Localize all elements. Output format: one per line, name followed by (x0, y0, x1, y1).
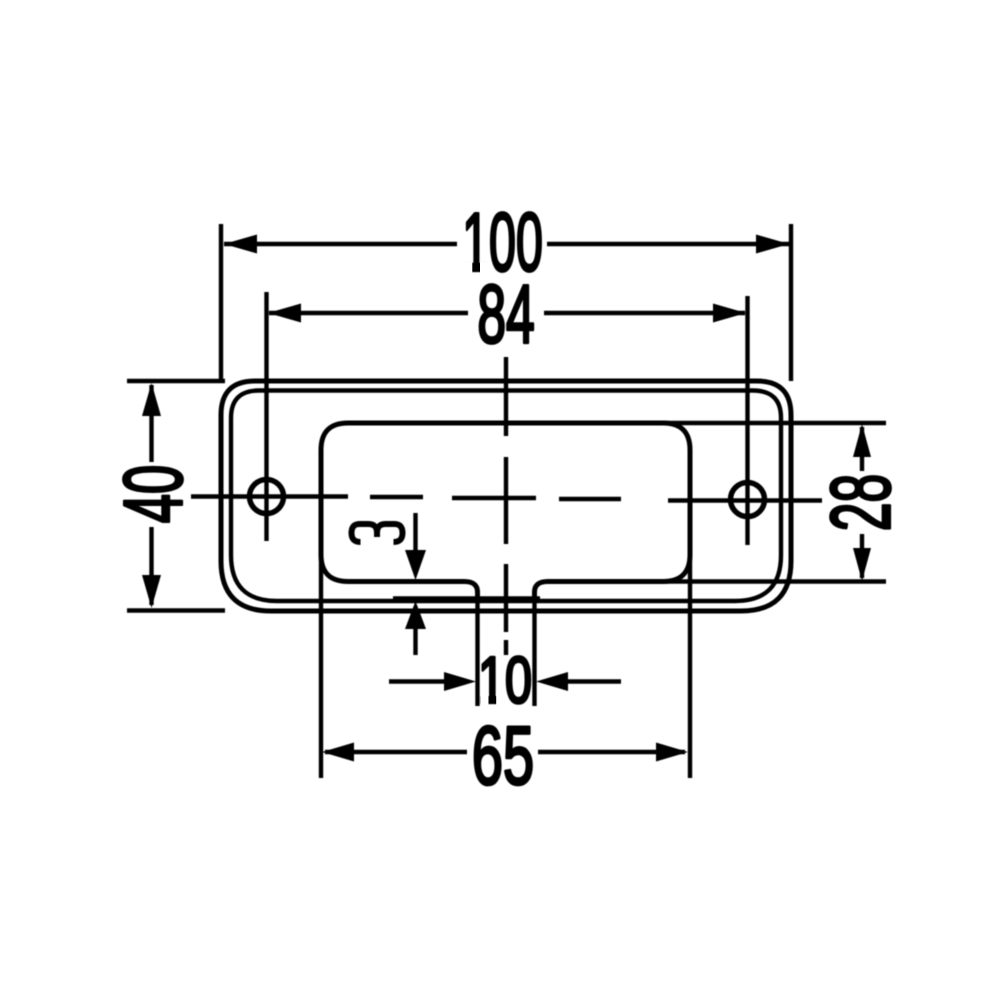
outer housing outline (221, 381, 791, 611)
svg-text:65: 65 (472, 709, 534, 802)
dim 3 lower arrow tail (413, 627, 417, 655)
dim 40 bottom extension line (127, 608, 225, 612)
dim 84 right arrowhead (713, 304, 746, 323)
dim 100 line right segment (547, 242, 789, 246)
dim 100 right arrowhead (756, 235, 789, 254)
dim 28 down arrowhead (853, 548, 871, 581)
horizontal center line middle segment (452, 496, 536, 500)
white patches removing the foot serif of digit 1 in "10" (481, 694, 489, 708)
dim 10 right extension line (532, 599, 536, 706)
svg-text:84: 84 (477, 268, 534, 361)
dim 40 down arrowhead (142, 575, 161, 608)
dim 3 lower arrowhead (up) (405, 601, 426, 629)
horizontal center line dash (559, 497, 621, 501)
dim 84 left arrowhead (268, 304, 301, 323)
dim 40 top extension line (127, 379, 225, 383)
dim 28 line lower segment (860, 534, 864, 578)
rim outline (231, 391, 781, 602)
dim 100 line left segment (224, 242, 457, 246)
svg-text:40: 40 (107, 465, 200, 523)
dim 10 left extension line (475, 599, 479, 706)
label 3 (rotated, drawn glyph) (352, 524, 403, 542)
dim 84 line left segment (269, 311, 468, 315)
dim 3 upper arrow line (413, 513, 417, 560)
dim 28 bottom extension line (663, 579, 886, 583)
left mounting hole (250, 480, 284, 514)
left hole vertical crosshair / 84 extension line (264, 292, 268, 541)
vertical center line top segment (504, 357, 508, 436)
vertical center line lower segment (504, 564, 508, 632)
dim 40 line upper segment (149, 385, 153, 462)
vertical center line bottom dash (504, 640, 508, 655)
notch step line (bold, rim level) (393, 596, 540, 602)
dim 10 left arrowhead (right-pointing) (444, 672, 476, 691)
dim 100 right extension line (789, 224, 793, 381)
dim 100 left arrowhead (224, 235, 257, 254)
vertical center line middle segment (504, 457, 508, 544)
dim 28 top extension line (663, 421, 886, 425)
dim 65 left extension line (319, 554, 323, 778)
dim 65 line left segment (325, 750, 467, 754)
dim 65 right arrowhead (656, 743, 688, 762)
dim 65 left arrowhead (322, 743, 354, 762)
dim 40 up arrowhead (142, 383, 161, 416)
dim 10 right arrow line (562, 679, 621, 683)
right hole vertical crosshair / 84 extension line (745, 296, 749, 545)
dim 40 line lower segment (149, 527, 153, 605)
svg-text:28: 28 (814, 474, 908, 531)
dim 10 right arrowhead (left-pointing) (536, 672, 568, 691)
dim 3 upper arrowhead (down) (405, 550, 426, 580)
dim 28 up arrowhead (853, 424, 871, 457)
horizontal center line through left hole (191, 494, 348, 498)
white patches removing the foot serif of digit 1 in "100" (462, 262, 472, 277)
horizontal center line dash (370, 495, 423, 499)
dim 84 line right segment (544, 311, 745, 315)
dim 10 left arrow line (389, 679, 450, 683)
right mounting hole (731, 483, 765, 517)
lens window with bottom notch (321, 423, 690, 599)
dim 100 left extension line (219, 224, 223, 381)
horizontal center line through right hole (668, 498, 822, 502)
dim 28 line upper segment (860, 427, 864, 471)
dim 65 line right segment (538, 750, 685, 754)
dim 65 right extension line (688, 554, 692, 778)
